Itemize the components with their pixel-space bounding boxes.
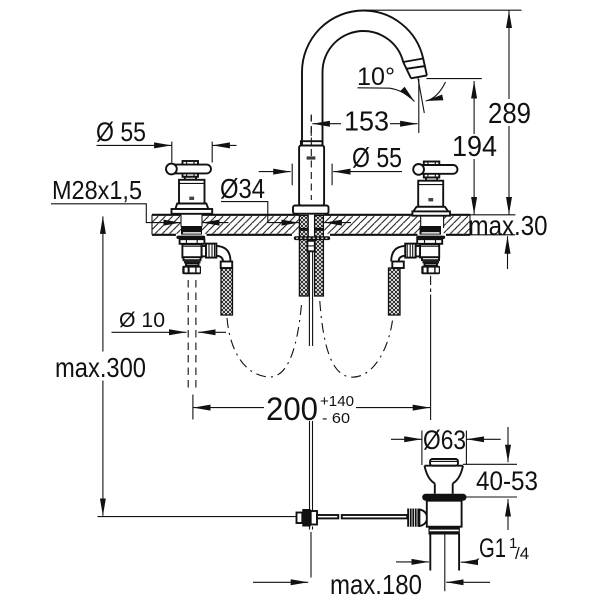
dim arrows G1 1/4 bbox=[396, 561, 429, 563]
horizontal lever rod segment 2 bbox=[342, 515, 407, 518]
right valve handle ball end bbox=[413, 164, 424, 175]
left elbow outlet bbox=[202, 246, 206, 256]
left valve hex flange bbox=[180, 239, 205, 244]
linkage clamp left piece bbox=[297, 513, 303, 524]
dim line 153 bbox=[312, 123, 341, 125]
reference lines 40-53 bbox=[463, 464, 517, 497]
leader diameter 34 bbox=[221, 202, 287, 223]
right valve centerline bbox=[430, 276, 432, 292]
angle arc 10 degrees bbox=[426, 82, 446, 101]
svg-text:max.180: max.180 bbox=[330, 569, 422, 600]
center hose seal bands in deck bbox=[299, 228, 308, 231]
spout base flange bbox=[293, 206, 329, 214]
water stream tilted axis line bbox=[418, 77, 425, 113]
right valve base plate bbox=[412, 211, 450, 215]
left hose ferrule bbox=[221, 262, 233, 269]
left valve washer (black) bbox=[176, 236, 205, 239]
svg-text:Ø 10: Ø 10 bbox=[119, 308, 165, 332]
M28 right arrow bbox=[202, 222, 228, 224]
right valve base bbox=[413, 207, 448, 212]
extension line max.180 left (rod) bbox=[310, 532, 312, 578]
center washer (black knurled) bbox=[294, 236, 330, 240]
right elbow ridged nut bbox=[405, 244, 415, 258]
right valve hub facet lines bbox=[428, 162, 435, 178]
spout nozzle side edges bbox=[403, 59, 427, 79]
left valve shank in deck bbox=[181, 215, 202, 227]
dim line max.180 bbox=[253, 581, 308, 583]
deck right edge bbox=[469, 215, 471, 235]
countertop deck top line bbox=[152, 214, 470, 216]
right valve shank seal band bbox=[420, 226, 442, 235]
spout nozzle cut line A bbox=[403, 59, 423, 63]
leader 10 degrees bbox=[358, 88, 415, 102]
spout gooseneck outer arc bbox=[302, 11, 423, 147]
svg-text:Ø63: Ø63 bbox=[423, 425, 466, 455]
right valve hex nut (black) bbox=[421, 266, 440, 275]
max.30 reference lines extending right of deck bbox=[470, 215, 515, 235]
pop-up waste body bbox=[427, 501, 462, 527]
dim arrows diameter 55 center bbox=[259, 171, 291, 173]
countertop deck bottom line bbox=[152, 234, 470, 236]
right valve adapter bands bbox=[422, 257, 439, 260]
left valve body bbox=[179, 180, 205, 204]
left valve logo dot bbox=[189, 197, 194, 200]
spout body cylinder bbox=[299, 146, 324, 206]
dim line diameter 55 left bbox=[97, 144, 172, 146]
right valve body rim line bbox=[418, 184, 443, 186]
pop-up waste coupling band bbox=[429, 528, 459, 532]
reference line 289 top bbox=[364, 9, 522, 11]
dim line 289 bbox=[508, 11, 510, 99]
dim arrows 40-53 bbox=[507, 427, 509, 462]
right elbow outlet bbox=[416, 246, 420, 256]
svg-text:Ø34: Ø34 bbox=[220, 173, 265, 204]
dim arrow max.30 bbox=[507, 236, 509, 269]
right valve hub bbox=[424, 162, 440, 178]
svg-text:10°: 10° bbox=[357, 63, 395, 91]
right elbow housing bbox=[420, 244, 439, 257]
left valve stem bbox=[185, 177, 196, 180]
knob inner cap bbox=[419, 510, 427, 527]
left valve base plate bbox=[172, 209, 213, 214]
svg-text:194: 194 bbox=[452, 131, 497, 163]
linkage clamp block bbox=[302, 509, 310, 527]
svg-text:+140: +140 bbox=[320, 393, 354, 410]
horizontal lever rod thin left reference line bbox=[98, 516, 297, 518]
extension lines diameter 63 bbox=[422, 431, 467, 466]
center braided hose left bbox=[299, 215, 308, 296]
horizontal lever rod segment 1 bbox=[317, 515, 338, 518]
extension line 200 left bbox=[192, 395, 194, 420]
left valve handle bar bbox=[168, 165, 211, 174]
spout mouth face bbox=[411, 75, 427, 78]
pop-up waste lock flange (black) bbox=[422, 494, 466, 501]
left valve hub bbox=[183, 161, 199, 177]
body centerline (dashed) bbox=[310, 115, 312, 201]
svg-text:40-53: 40-53 bbox=[476, 466, 538, 496]
left valve adapter bands bbox=[184, 257, 201, 260]
pop-up waste dome knob bbox=[430, 459, 458, 466]
right valve handle bar bbox=[415, 165, 458, 174]
right valve hex flange bbox=[417, 239, 442, 244]
knurled adjuster knob bbox=[407, 509, 419, 527]
leader M28x1,5 bbox=[51, 204, 167, 223]
svg-text:Ø 55: Ø 55 bbox=[352, 142, 402, 173]
svg-text:G1: G1 bbox=[479, 533, 506, 563]
svg-text:153: 153 bbox=[344, 106, 389, 137]
water stream vertical line bbox=[418, 79, 420, 133]
deck left edge bbox=[151, 215, 153, 235]
svg-text:max.300: max.300 bbox=[55, 352, 146, 383]
left valve hub facet lines bbox=[187, 161, 194, 177]
left supply pipe (dashed) bbox=[188, 280, 196, 390]
center braided hose right bbox=[315, 215, 324, 296]
right braided hose bbox=[389, 268, 401, 315]
pop-up rod upper bbox=[309, 251, 312, 346]
right valve washer (black) bbox=[416, 236, 445, 239]
pop-up waste neck bbox=[435, 484, 453, 494]
tailpipe walls bbox=[430, 534, 459, 571]
svg-text:- 60: - 60 bbox=[322, 410, 350, 427]
diameter 34 right arrow bbox=[324, 222, 351, 224]
dim line diameter 63 bbox=[391, 438, 422, 440]
left valve handle ball end bbox=[166, 164, 177, 175]
left valve shank seal band bbox=[181, 226, 202, 235]
left valve body rim line bbox=[179, 182, 205, 184]
svg-text:/4: /4 bbox=[515, 544, 529, 563]
deck hatching bbox=[152, 216, 181, 234]
pop-up waste top cone bbox=[425, 466, 464, 484]
left valve hex nut (black) bbox=[182, 266, 201, 275]
right valve logo dot bbox=[428, 198, 433, 201]
rod tip below clamp bbox=[310, 527, 313, 530]
hose curve left (dash-dot) bbox=[227, 301, 302, 377]
right elbow bend pipe bbox=[391, 246, 405, 262]
hose curve right (dash-dot) bbox=[320, 301, 393, 377]
linkage clamp right piece bbox=[311, 511, 317, 525]
svg-text:Ø 55: Ø 55 bbox=[96, 117, 146, 147]
left valve base bbox=[175, 204, 208, 210]
dim line diameter 10 bbox=[112, 331, 187, 333]
pop-up rod lower bbox=[310, 421, 313, 510]
left elbow ridged nut bbox=[206, 244, 216, 258]
grohe logo mark on body bbox=[307, 156, 316, 159]
right valve body bbox=[418, 181, 443, 207]
dim line 194 bbox=[473, 81, 475, 134]
right hose ferrule bbox=[392, 262, 404, 269]
svg-text:200: 200 bbox=[266, 391, 318, 427]
dim line 200 bbox=[193, 407, 264, 409]
left elbow bend pipe bbox=[216, 246, 230, 262]
tailpipe centerline bbox=[444, 534, 446, 591]
left elbow housing bbox=[182, 244, 201, 257]
spout gooseneck inner arc bbox=[323, 31, 404, 146]
right valve shank in deck bbox=[421, 215, 444, 228]
extension lines diameter 55 center bbox=[292, 164, 332, 186]
reference line 194 top bbox=[427, 78, 482, 80]
svg-text:max.30: max.30 bbox=[469, 210, 548, 241]
dim line max.300 bbox=[102, 216, 104, 351]
svg-text:289: 289 bbox=[488, 98, 531, 130]
center hose fitting bbox=[307, 241, 314, 252]
extension lines diameter 55 left bbox=[172, 142, 212, 163]
spout body cap bbox=[301, 141, 323, 145]
spout nozzle cut line B bbox=[406, 66, 425, 69]
right valve stem bbox=[426, 178, 437, 181]
extension centerline 153 (dashed) bbox=[310, 116, 312, 137]
svg-text:M28x1,5: M28x1,5 bbox=[52, 175, 142, 205]
left braided hose bbox=[221, 268, 233, 315]
